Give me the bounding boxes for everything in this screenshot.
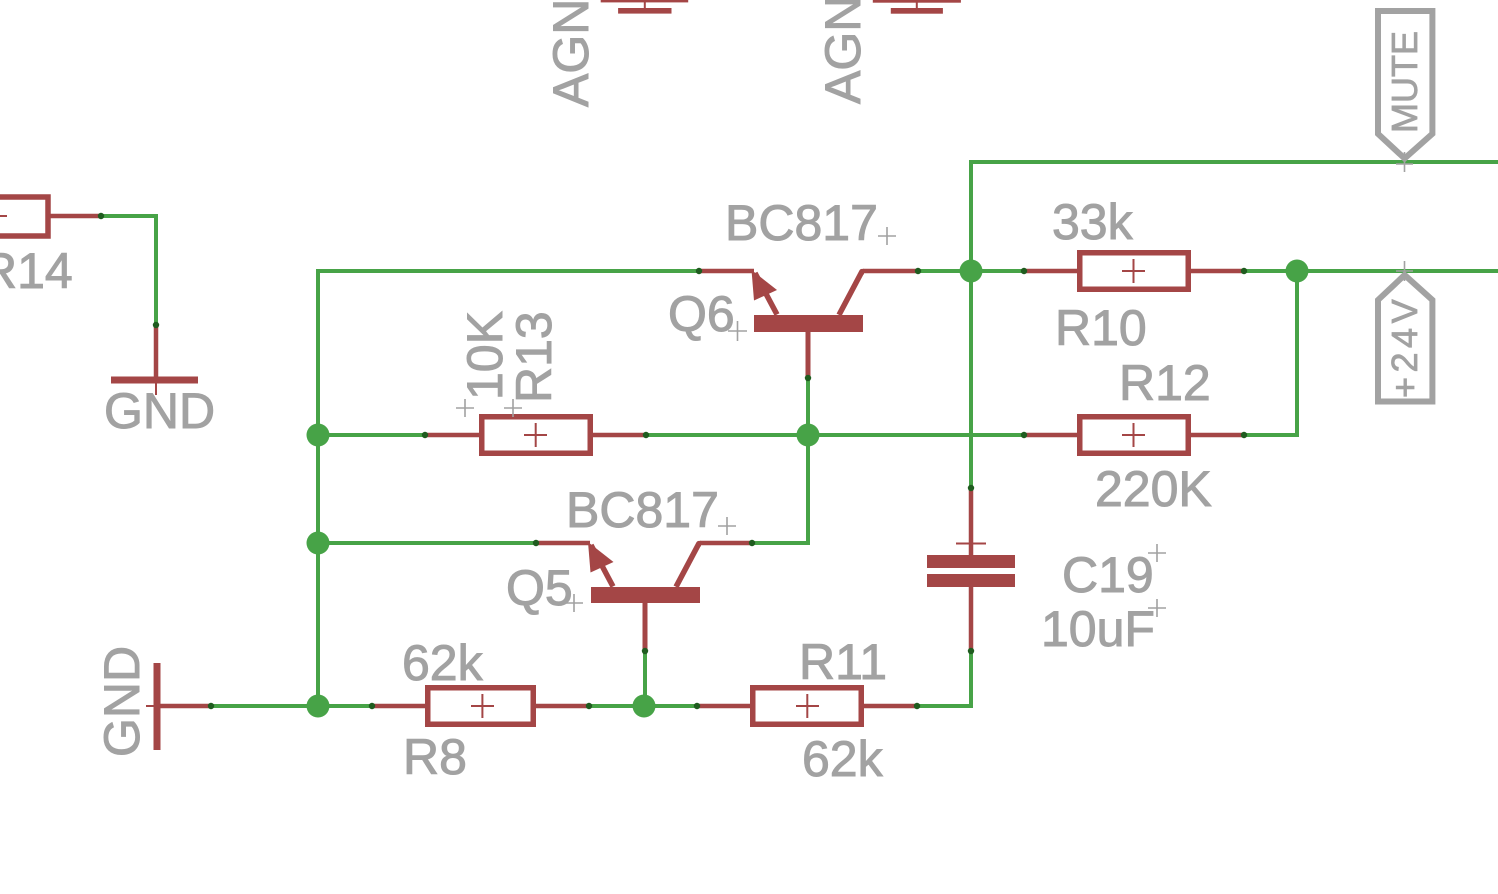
svg-text:R10: R10 (1055, 300, 1147, 356)
svg-text:BC817: BC817 (725, 195, 878, 251)
net flag +24V (1378, 261, 1432, 402)
wire left vertical bus x=318 (316, 269, 320, 706)
origin cross R13 (504, 399, 522, 417)
svg-text:+24V: +24V (1384, 295, 1425, 398)
origin cross BC817 (Q6) (878, 227, 896, 245)
wire junction 644 to R11 (644, 704, 697, 708)
wire Q6 base vertical (806, 378, 810, 435)
wire R8 to junction 644 (589, 704, 644, 708)
resistor R11 (694, 688, 920, 725)
origin cross Q5 (565, 594, 583, 612)
wire +24V net to right edge (1297, 269, 1498, 273)
svg-text:AGND: AGND (543, 0, 599, 107)
wire x=971 up from bottom row (969, 651, 973, 708)
wire junction to R8 (318, 704, 372, 708)
svg-text:BC817: BC817 (566, 482, 719, 538)
origin cross BC817 (Q5) (718, 517, 736, 535)
svg-text:10uF: 10uF (1041, 601, 1155, 657)
origin cross 10K (456, 399, 474, 417)
svg-text:GND: GND (104, 383, 215, 439)
svg-text:GND: GND (94, 646, 150, 757)
svg-text:220K: 220K (1095, 461, 1212, 517)
wire MUTE net vertical drop (969, 160, 973, 271)
svg-text:C19: C19 (1062, 547, 1154, 603)
svg-text:R8: R8 (403, 729, 467, 785)
wire x=971 junction down to C19 (969, 271, 973, 488)
junction node bottom/x644 (633, 695, 656, 718)
resistor R13 (422, 417, 649, 454)
svg-text:R12: R12 (1119, 355, 1211, 411)
ground AGND 2 (873, 0, 961, 14)
ground GND (upper left) (111, 322, 198, 395)
wire junction to R10 (971, 269, 1023, 273)
origin cross 10uF (1148, 599, 1166, 617)
junction node row2/x808 (797, 424, 820, 447)
wire R11 to corner 971 (917, 704, 971, 708)
svg-text:33k: 33k (1052, 194, 1134, 250)
wire x=808 vertical to Q5 collector (806, 435, 810, 543)
svg-text:62k: 62k (402, 635, 484, 691)
junction node Q5row/x318 (307, 532, 330, 555)
svg-text:R11: R11 (799, 634, 887, 690)
resistor R14 (cut at left edge) (0, 197, 104, 236)
wire row2 left segment (318, 433, 425, 437)
ground GND (lower left, rotated) (146, 663, 214, 750)
wire row1 left segment (316, 269, 699, 273)
net flag MUTE (1378, 11, 1432, 172)
svg-text:R13: R13 (506, 311, 562, 403)
svg-text:62k: 62k (802, 731, 884, 787)
transistor Q6 BC817 (696, 268, 921, 381)
wire R14 gnd segment (100, 216, 156, 325)
svg-text:Q5: Q5 (506, 560, 573, 616)
wire R13 to R12 segment (646, 433, 1024, 437)
origin cross Q6 (728, 321, 747, 341)
resistor R8 (369, 688, 592, 725)
wire R12 right to corner (1244, 433, 1299, 437)
wire Q6 collector to junction (918, 269, 971, 273)
resistor R10 (1021, 253, 1247, 290)
svg-text:10K: 10K (457, 311, 513, 400)
junction node row1/x1297 (1286, 260, 1309, 283)
svg-text:Q6: Q6 (668, 286, 735, 342)
wire MUTE net horizontal (971, 160, 1498, 164)
wire Q5 emitter row (318, 541, 536, 545)
svg-text:MUTE: MUTE (1384, 31, 1425, 133)
transistor Q5 BC817 (533, 540, 755, 654)
wire R10 to junction 1297 (1244, 269, 1297, 273)
wire Q5 collector horizontal (752, 541, 810, 545)
resistor R12 (1021, 417, 1247, 454)
wire vertical x=1297 (1295, 271, 1299, 435)
ground AGND 1 (601, 0, 689, 14)
wire GND to junction bottom (211, 704, 318, 708)
junction node row2/x318 (307, 424, 330, 447)
svg-text:R14: R14 (0, 243, 73, 299)
origin cross C19 (1148, 544, 1166, 562)
wire Q5 base vertical (643, 651, 647, 706)
junction node bottom/x318 (307, 695, 330, 718)
capacitor C19 (927, 485, 1015, 654)
svg-text:AGND: AGND (815, 0, 871, 104)
junction node row1/x971 (960, 260, 983, 283)
